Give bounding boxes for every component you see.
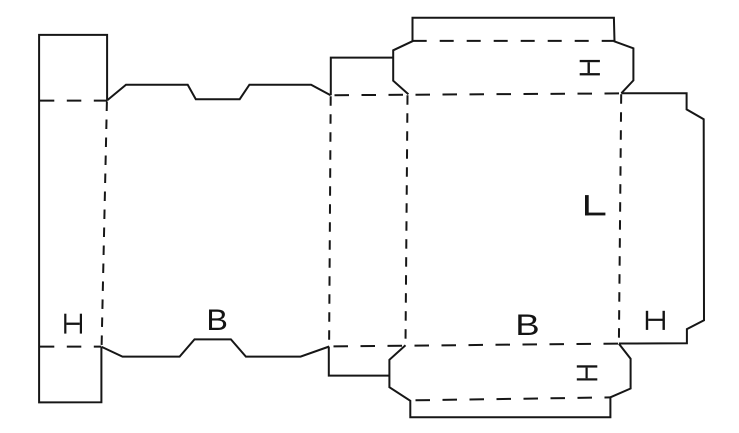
fold line panel B / narrow panel (vertical): [329, 96, 331, 345]
svg-text:B: B: [515, 309, 539, 342]
fold line bottom flap (horizontal): [334, 344, 619, 347]
bottom dust flap and tuck flap outline: [389, 344, 630, 418]
fold line glue flap bottom: [40, 346, 102, 348]
fold line glue flap top: [40, 100, 107, 102]
label H (glue flap): [64, 314, 82, 334]
fold line top flap (horizontal): [335, 93, 622, 95]
bottom tab cut edge (narrow panel bottom): [329, 347, 390, 376]
svg-text:B: B: [206, 303, 228, 337]
top tab cut edge (narrow panel top): [331, 58, 393, 96]
label H rotated (bottom dust flap): [577, 365, 598, 380]
right end panel H outline: [619, 93, 704, 343]
panel B bottom cut profile (zigzag): [102, 339, 330, 356]
label H rotated (top dust flap): [580, 60, 600, 76]
fold line top tuck (horizontal): [413, 40, 614, 42]
panel B top cut profile (zigzag): [107, 85, 331, 101]
glue flap outline (left strip cut edges): [39, 35, 107, 403]
label L (panel L): [585, 195, 605, 215]
label H (right end panel): [646, 311, 665, 330]
top dust flap and tuck flap outline: [393, 18, 633, 95]
fold line panel L / right panel H (vertical): [619, 94, 621, 343]
fold line bottom tuck (horizontal): [416, 397, 611, 400]
fold line glue flap / panel B (vertical): [102, 102, 107, 347]
fold line narrow panel / panel L (vertical): [406, 95, 408, 344]
